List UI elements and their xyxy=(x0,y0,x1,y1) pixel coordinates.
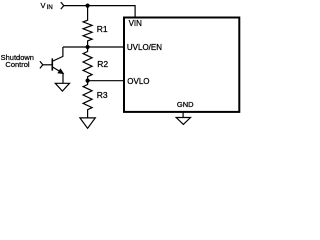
label Shutdown Control xyxy=(1,53,34,69)
svg-text:VIN: VIN xyxy=(129,19,143,28)
wire OVLO xyxy=(88,80,125,82)
wire Q1 base xyxy=(43,64,52,66)
junction R2/R3/OVLO xyxy=(86,79,90,83)
resistor R1 xyxy=(83,6,92,47)
input port VIN xyxy=(61,2,64,9)
resistor R2 xyxy=(83,49,92,81)
svg-text:R3: R3 xyxy=(97,90,108,100)
junction R1/R2/UVLO xyxy=(86,45,90,49)
IC U1 box xyxy=(124,18,239,112)
svg-text:Control: Control xyxy=(5,60,30,69)
wire UVLO/EN xyxy=(63,46,125,48)
svg-text:IN: IN xyxy=(47,5,53,11)
svg-text:UVLO/EN: UVLO/EN xyxy=(127,43,162,52)
svg-text:OVLO: OVLO xyxy=(127,77,149,86)
resistor R3 xyxy=(83,81,92,118)
wire Q1 emitter xyxy=(62,74,64,84)
svg-text:R1: R1 xyxy=(97,24,108,34)
wire VIN to U1 xyxy=(64,6,135,19)
svg-text:V: V xyxy=(41,1,46,10)
svg-text:GND: GND xyxy=(177,100,194,109)
ground U1 xyxy=(176,118,190,125)
wire GND stub xyxy=(182,112,184,117)
junction VIN/R1 xyxy=(86,4,90,8)
wire Q1 collector xyxy=(53,47,63,61)
node VIN label xyxy=(41,1,53,11)
ground R3 xyxy=(80,118,95,128)
ground Q1 xyxy=(55,83,69,91)
transistor Q1 xyxy=(52,58,64,74)
svg-text:R2: R2 xyxy=(97,59,108,69)
input port Shutdown xyxy=(40,61,43,68)
